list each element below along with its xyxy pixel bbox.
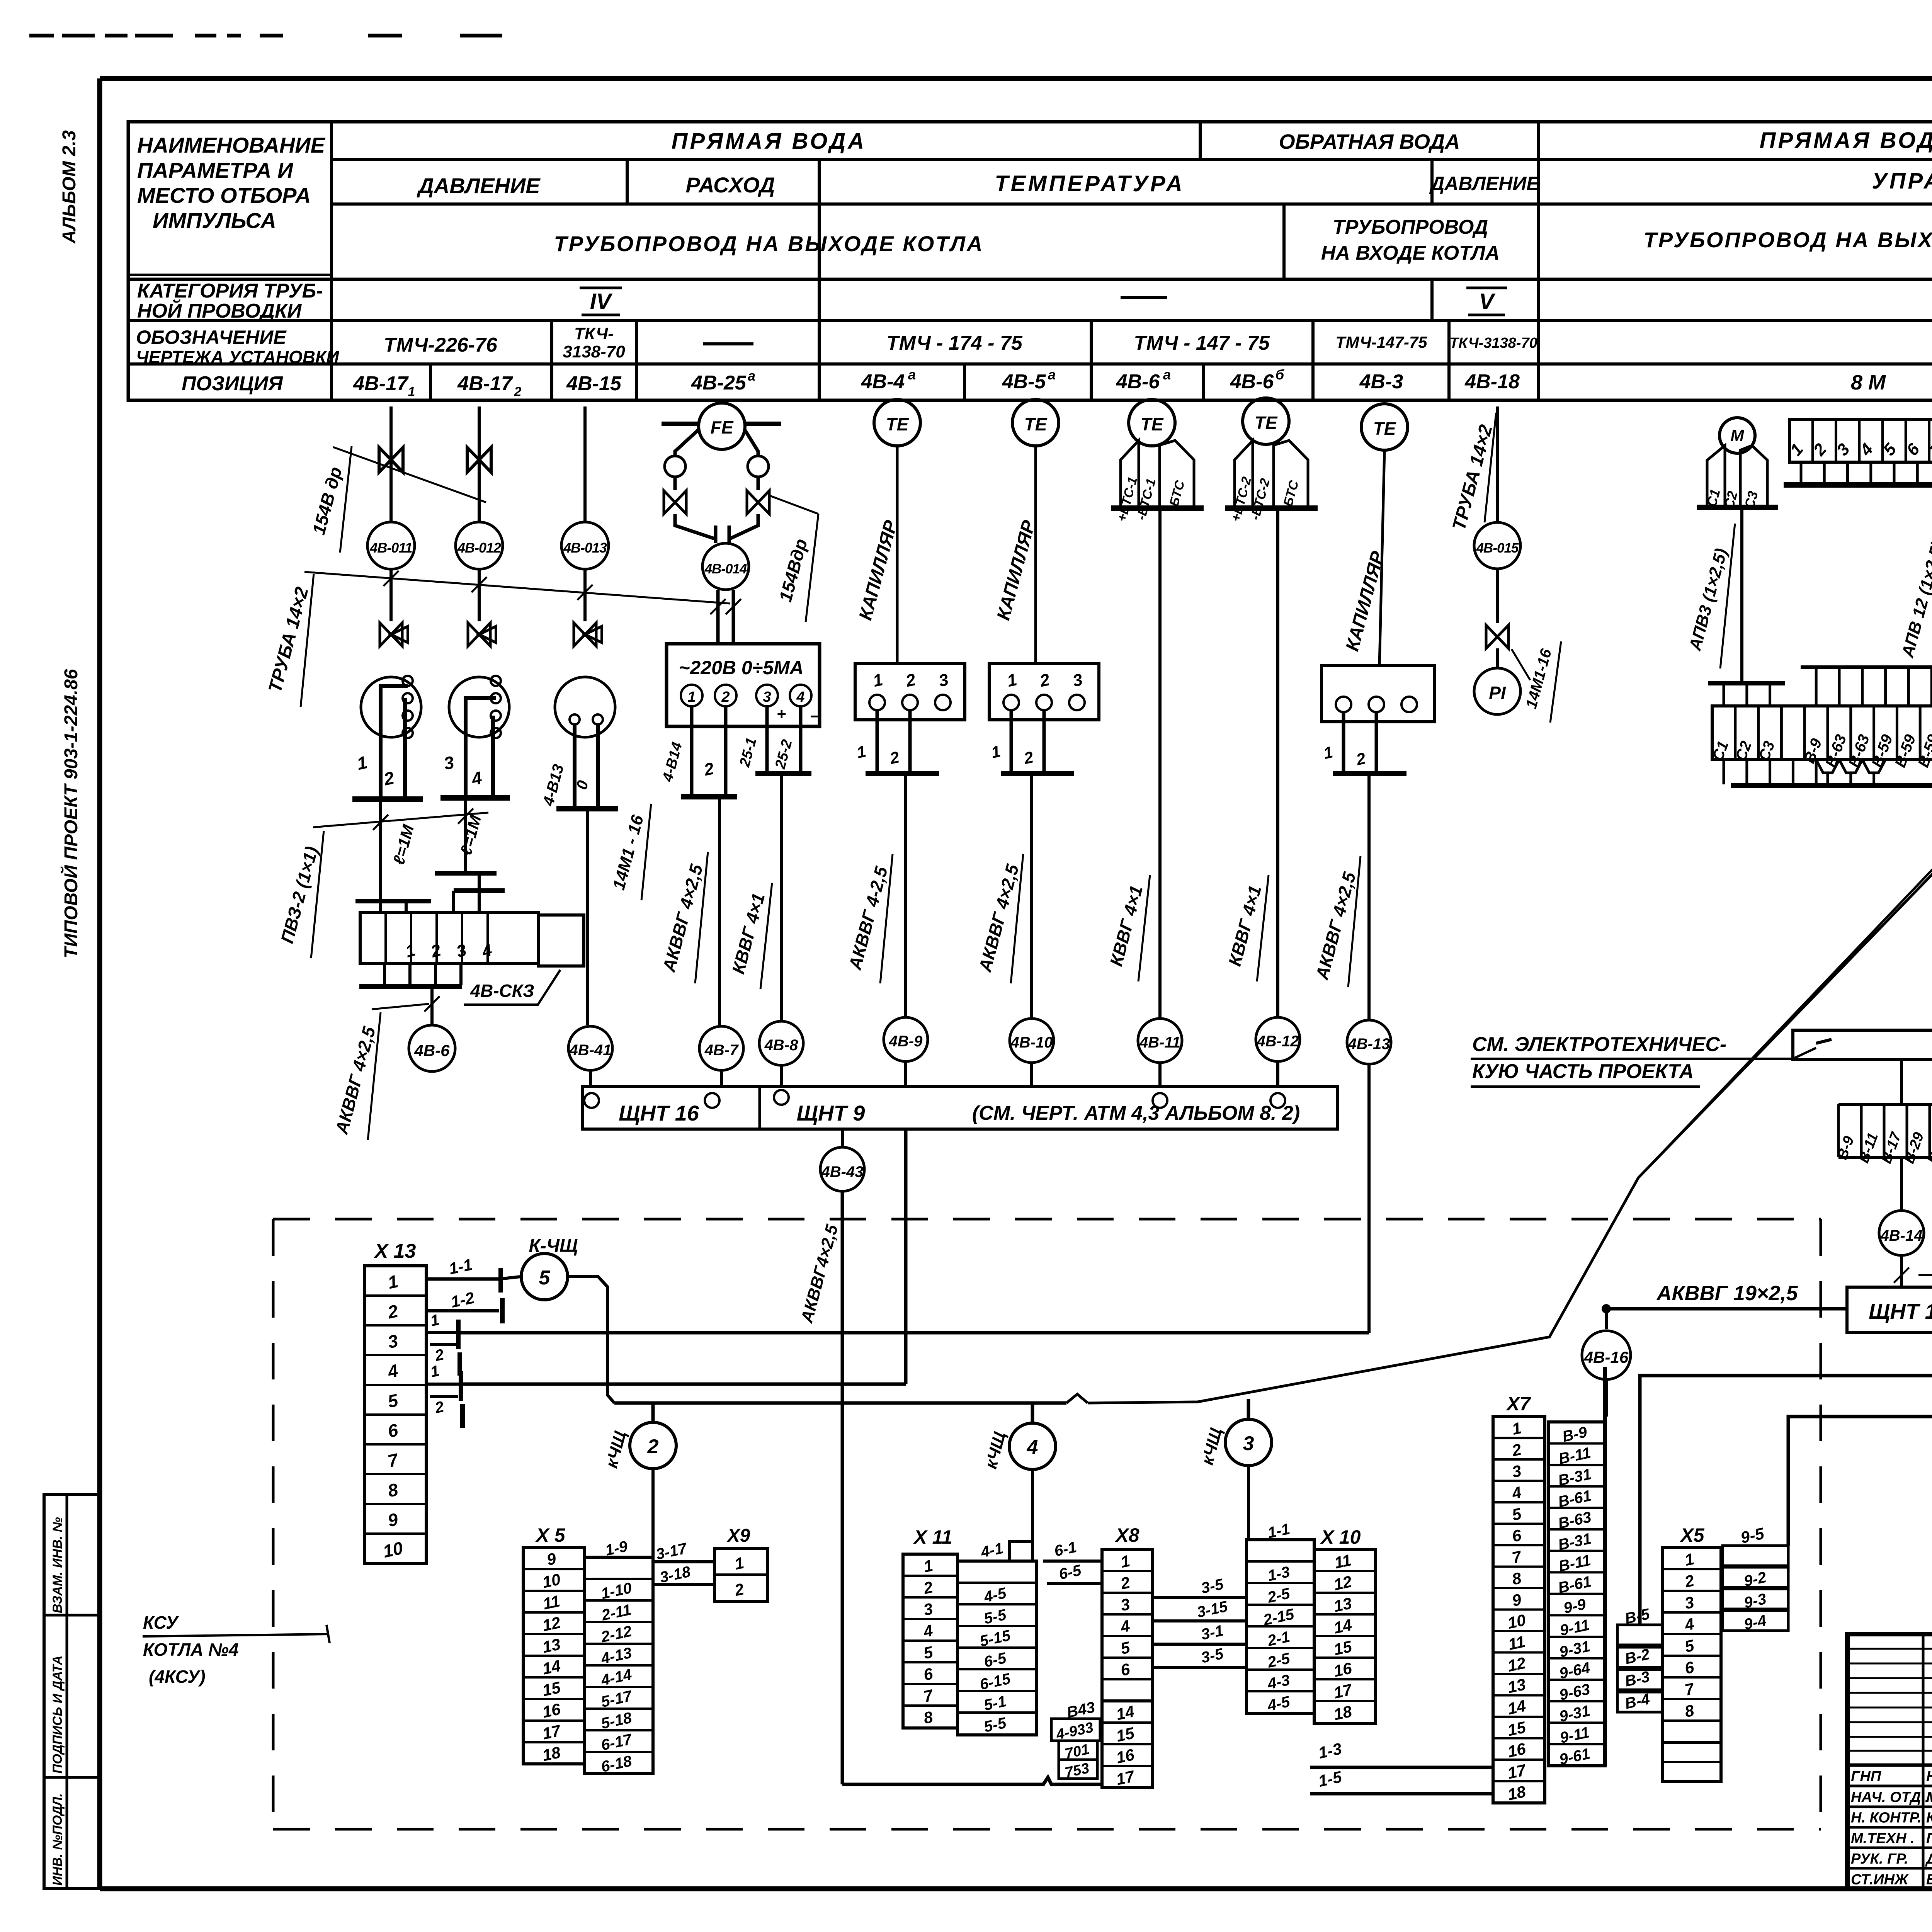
svg-text:4В-8: 4В-8 bbox=[764, 1037, 798, 1054]
strip В-9..В-63 bbox=[1838, 1103, 1932, 1106]
svg-text:К-ЧЩ: К-ЧЩ bbox=[529, 1236, 578, 1256]
svg-text:ТЕ: ТЕ bbox=[1024, 414, 1048, 434]
svg-text:а: а bbox=[908, 367, 916, 383]
svg-text:2: 2 bbox=[514, 384, 522, 399]
line down to 4В-015 bbox=[1496, 406, 1499, 522]
fork below В-63 bbox=[1816, 760, 1839, 773]
svg-text:ПОЗИЦИЯ: ПОЗИЦИЯ bbox=[182, 372, 283, 395]
svg-text:ОБОЗНАЧЕНИЕ: ОБОЗНАЧЕНИЕ bbox=[136, 327, 287, 348]
wires from gauge 1 with numerals 1 2 bbox=[381, 686, 408, 798]
svg-text:ПОДПИСЬ И ДАТА: ПОДПИСЬ И ДАТА bbox=[50, 1655, 65, 1774]
svg-text:4В-5: 4В-5 bbox=[1002, 371, 1046, 393]
svg-text:ПАРАМЕТРА И: ПАРАМЕТРА И bbox=[137, 158, 294, 182]
wire down to 4В-11 bbox=[1158, 508, 1162, 1019]
small bus С1С2С3 8М bbox=[1708, 681, 1785, 685]
svg-text:4В-011: 4В-011 bbox=[369, 540, 412, 556]
wires terminals 3 4 down bbox=[765, 706, 769, 772]
svg-text:ЧЕРТЕЖА УСТАНОВКИ: ЧЕРТЕЖА УСТАНОВКИ bbox=[136, 347, 339, 367]
svg-text:4В-4: 4В-4 bbox=[861, 371, 905, 393]
svg-text:2: 2 bbox=[647, 1435, 659, 1458]
svg-text:4В-013: 4В-013 bbox=[563, 540, 607, 556]
svg-text:4В-12: 4В-12 bbox=[1257, 1033, 1299, 1050]
svg-text:14: 14 bbox=[541, 1656, 562, 1678]
flow element FE circle bbox=[699, 403, 745, 449]
motor circle М 8М bbox=[1719, 418, 1755, 453]
wire down to 4В-10 bbox=[1030, 774, 1033, 1019]
lower strip 8М bbox=[1712, 706, 1932, 760]
svg-text:ЩНТ 9: ЩНТ 9 bbox=[797, 1101, 865, 1125]
svg-text:4В-6: 4В-6 bbox=[414, 1041, 450, 1060]
svg-text:4В-3: 4В-3 bbox=[1359, 371, 1403, 393]
wire from note to panel bar bbox=[1723, 1058, 1793, 1060]
line below 4В-012 bbox=[478, 569, 481, 621]
svg-text:3: 3 bbox=[763, 689, 771, 705]
svg-text:4В-СКЗ: 4В-СКЗ bbox=[470, 981, 534, 1001]
category dash bbox=[1121, 296, 1167, 299]
gauge contacts 4В-013 bbox=[570, 714, 580, 724]
wires 843 to X8 bbox=[1100, 1728, 1102, 1731]
svg-text:МЕСТО ОТБОРА: МЕСТО ОТБОРА bbox=[137, 183, 311, 207]
svg-text:НА ВХОДЕ КОТЛА: НА ВХОДЕ КОТЛА bbox=[1321, 242, 1500, 264]
svg-text:ТМЧ - 174 - 75: ТМЧ - 174 - 75 bbox=[886, 332, 1023, 354]
bus under terminals 1 2 bbox=[681, 794, 737, 799]
FE left valve bbox=[664, 491, 686, 514]
wires from gauge 2 with numerals 3 4 bbox=[466, 698, 496, 797]
cable circle 4В-014 bbox=[702, 543, 749, 590]
wire down to 4В-9 bbox=[904, 774, 907, 1018]
diagonal to СМ ЭЛЕКТРО area bbox=[1638, 867, 1932, 1178]
wire to 4В-6 circle bbox=[430, 986, 434, 1025]
svg-text:КАТЕГОРИЯ ТРУБ-: КАТЕГОРИЯ ТРУБ- bbox=[137, 280, 323, 302]
svg-text:13: 13 bbox=[1332, 1594, 1353, 1616]
wires 1 2 below box bbox=[876, 710, 879, 772]
svg-text:3138-70: 3138-70 bbox=[563, 342, 625, 361]
svg-text:4В-012: 4В-012 bbox=[457, 540, 501, 556]
X10 right column bbox=[1314, 1549, 1376, 1723]
cable circle 4В-9 bbox=[884, 1017, 928, 1061]
svg-text:X 13: X 13 bbox=[374, 1240, 416, 1262]
left margin stamp boxes bbox=[44, 1495, 99, 1889]
svg-text:КУЮ ЧАСТЬ ПРОЕКТА: КУЮ ЧАСТЬ ПРОЕКТА bbox=[1472, 1060, 1694, 1083]
label АКВВГ 7х2,5 8М bbox=[1900, 1255, 1903, 1287]
temperature element TE circle bbox=[1012, 400, 1059, 446]
wire 4В-9 through board bbox=[904, 1061, 907, 1087]
svg-text:КУШЕЛЬ: КУШЕЛЬ bbox=[1926, 1810, 1932, 1826]
wire bar to strip В-9..В-63 bbox=[1900, 1060, 1903, 1104]
TE column 4В-11 bbox=[1129, 400, 1175, 446]
wire АПВ3 8М bbox=[1740, 507, 1743, 683]
svg-text:ЩНТ 16: ЩНТ 16 bbox=[619, 1101, 699, 1125]
svg-text:ТКЧ-3138-70: ТКЧ-3138-70 bbox=[1449, 335, 1537, 351]
wire down to 4В-8 bbox=[780, 774, 783, 1020]
bus under БТС banner bbox=[1111, 505, 1204, 511]
bottom bus 8М bbox=[1731, 783, 1932, 788]
X11 right tag column bbox=[957, 1561, 1036, 1735]
wire down to 4В-12 bbox=[1276, 508, 1279, 1018]
svg-text:X9: X9 bbox=[726, 1526, 750, 1546]
registration dashes top-left bbox=[29, 34, 54, 37]
svg-text:ВЗАМ. ИНВ. №: ВЗАМ. ИНВ. № bbox=[50, 1517, 65, 1613]
temperature element TE circle bbox=[874, 400, 920, 446]
wire circle3 down bbox=[1247, 1466, 1250, 1540]
svg-text:4В-14: 4В-14 bbox=[1880, 1227, 1923, 1244]
stubs below lower strip 8М bbox=[1723, 760, 1725, 784]
svg-text:4В-6: 4В-6 bbox=[1116, 371, 1160, 393]
stubs into lower strip 8М bbox=[1815, 667, 1818, 706]
svg-text:4: 4 bbox=[796, 689, 804, 705]
svg-text:НАЧ. ОТД .: НАЧ. ОТД . bbox=[1851, 1789, 1929, 1805]
strip 1-12 8М bbox=[1789, 419, 1932, 462]
svg-text:ТРУБОПРОВОД: ТРУБОПРОВОД bbox=[1333, 216, 1488, 238]
wire X13 rows3-4 to 4В-13 column bbox=[458, 1331, 1369, 1335]
svg-text:12: 12 bbox=[1332, 1572, 1353, 1594]
stubs under strip 8М bbox=[1800, 462, 1803, 484]
svg-text:М.ТЕХН .: М.ТЕХН . bbox=[1851, 1830, 1915, 1847]
table column lines bbox=[330, 122, 333, 400]
gauge circle 4В-011 bbox=[361, 677, 421, 737]
svg-text:4В-18: 4В-18 bbox=[1464, 371, 1520, 393]
impulse line column 4В-011 bbox=[389, 406, 393, 522]
title block left signature grid bbox=[1847, 1764, 1932, 1767]
svg-text:4В-41: 4В-41 bbox=[569, 1042, 612, 1059]
wire 4В-43 down bbox=[841, 1191, 844, 1784]
FE right valve bbox=[747, 491, 769, 514]
svg-text:13: 13 bbox=[1506, 1675, 1527, 1697]
leader ПВЗ-2 to wires bbox=[313, 813, 488, 827]
svg-text:ТМЧ-147-75: ТМЧ-147-75 bbox=[1335, 333, 1427, 351]
svg-text:ТМЧ-226-76: ТМЧ-226-76 bbox=[384, 334, 498, 356]
svg-text:а: а bbox=[1163, 367, 1171, 383]
panel bar 8М bbox=[1793, 1030, 1932, 1060]
wire 4В-12 into board bbox=[1276, 1061, 1279, 1087]
wire circle4 down bbox=[1031, 1469, 1034, 1561]
instrument circle 4В-013 bbox=[561, 522, 609, 569]
three-way valve 4В-013 bbox=[574, 623, 596, 646]
label 14М1-16 leader bbox=[1512, 649, 1530, 680]
X7 right tag column bbox=[1548, 1422, 1605, 1766]
board ЩНТ 16 lower bbox=[1847, 1287, 1932, 1333]
FE right impulse branch bbox=[744, 429, 758, 456]
big U wire bottom bbox=[842, 1777, 1102, 1784]
svg-text:X 5: X 5 bbox=[535, 1524, 565, 1546]
svg-text:РУК. ГР.: РУК. ГР. bbox=[1851, 1851, 1908, 1867]
wire 9 tags riser bbox=[1788, 1417, 1932, 1546]
svg-text:X 11: X 11 bbox=[913, 1526, 952, 1548]
cable circle 4В-7 bbox=[699, 1026, 743, 1070]
svg-text:10: 10 bbox=[1506, 1611, 1527, 1632]
svg-text:ТРУБОПРОВОД НА ВЫХОДЕ КОТЛА: ТРУБОПРОВОД НА ВЫХОДЕ КОТЛА bbox=[554, 231, 984, 256]
X8 lower rows 14-17 bbox=[1102, 1701, 1153, 1787]
terminal dots on board bbox=[584, 1093, 599, 1108]
svg-text:АКВВГ 19×2,5: АКВВГ 19×2,5 bbox=[1656, 1282, 1798, 1305]
svg-text:ПАНТЕЛЕЕВА: ПАНТЕЛЕЕВА bbox=[1926, 1830, 1932, 1847]
svg-text:2: 2 bbox=[721, 689, 730, 705]
stubs above СКЗ strip bbox=[379, 900, 382, 912]
bus under БТС banner bbox=[1225, 505, 1318, 511]
leader across columns bbox=[304, 572, 730, 604]
wire 4В-8 into board bbox=[780, 1065, 783, 1087]
svg-text:4В-17: 4В-17 bbox=[353, 372, 409, 395]
FE side bars bbox=[662, 422, 698, 426]
break jog bbox=[1066, 1394, 1088, 1403]
instrument box ~220В 0÷5МА bbox=[667, 644, 820, 726]
wire АКВВГ19 into dashed area bbox=[1821, 1307, 1847, 1311]
svg-text:4: 4 bbox=[1027, 1436, 1038, 1459]
svg-text:4В-43: 4В-43 bbox=[821, 1163, 864, 1180]
svg-text:РАСХОД: РАСХОД bbox=[685, 173, 775, 197]
wire 4В-10 into board bbox=[1030, 1063, 1033, 1087]
instrument circle 4В-011 bbox=[367, 522, 415, 569]
svg-text:ТЕ: ТЕ bbox=[1141, 414, 1164, 434]
wire circle2 down bbox=[651, 1469, 655, 1556]
gauge contacts 4В-012 bbox=[491, 676, 501, 686]
wire АКВВГ19 horizontal bbox=[1606, 1307, 1847, 1311]
three-way valve 4В-011 bbox=[380, 623, 402, 646]
svg-text:4В-25: 4В-25 bbox=[691, 372, 747, 394]
wire down to 4В-13 bbox=[1367, 774, 1371, 1020]
svg-text:~220В 0÷5МА: ~220В 0÷5МА bbox=[679, 657, 803, 679]
dashed enclosure КСУ bbox=[272, 1219, 275, 1829]
svg-text:4В-13: 4В-13 bbox=[1348, 1036, 1390, 1053]
bus under box bbox=[1333, 771, 1406, 776]
wire down to 4В-7 bbox=[718, 797, 721, 1025]
gauge circle 4В-013 bbox=[555, 677, 615, 737]
svg-text:МЕЙМАН: МЕЙМАН bbox=[1926, 1788, 1932, 1805]
wire 4В-43 from board bbox=[841, 1129, 844, 1148]
svg-text:ДРУЖИНИНА: ДРУЖИНИНА bbox=[1925, 1851, 1932, 1867]
cable circle 4В-14 bbox=[1879, 1211, 1924, 1255]
svg-text:ГНП: ГНП bbox=[1851, 1769, 1881, 1785]
svg-text:КОТЛА №4: КОТЛА №4 bbox=[143, 1639, 238, 1660]
svg-text:14: 14 bbox=[1506, 1696, 1527, 1718]
svg-text:3: 3 bbox=[1243, 1432, 1254, 1455]
bus under TE box bbox=[866, 771, 939, 776]
terminal strip 4В-СКЗ bbox=[360, 912, 538, 963]
svg-text:8 М: 8 М bbox=[1851, 371, 1886, 394]
svg-text:FE: FE bbox=[711, 417, 734, 437]
svg-text:4В-15: 4В-15 bbox=[566, 372, 622, 395]
svg-text:РI: РI bbox=[1489, 683, 1506, 703]
svg-text:НИДБАЛЬСКИН: НИДБАЛЬСКИН bbox=[1926, 1769, 1932, 1785]
instrument circle РI bbox=[1496, 648, 1499, 668]
cable circle 4В-43 bbox=[820, 1147, 864, 1191]
cable circle 4В-16 bbox=[1605, 1309, 1608, 1329]
gauge circle 4В-012 bbox=[449, 677, 509, 737]
X5 right tag column bbox=[585, 1557, 653, 1774]
svg-text:ТРУБОПРОВОД НА ВЫХОДЕ КОТ: ТРУБОПРОВОД НА ВЫХОДЕ КОТЛА bbox=[1644, 228, 1932, 252]
svg-text:X5: X5 bbox=[1679, 1524, 1704, 1546]
X10 left tag column bbox=[1247, 1540, 1314, 1714]
terminal box 1 2 3 bbox=[855, 663, 965, 720]
svg-text:ТЕМПЕРАТУРА: ТЕМПЕРАТУРА bbox=[995, 171, 1185, 196]
svg-text:4В-014: 4В-014 bbox=[704, 561, 747, 577]
branches join to 4В-014 bbox=[675, 514, 716, 539]
svg-text:ДАВЛЕНИЕ: ДАВЛЕНИЕ bbox=[1429, 173, 1540, 194]
svg-text:4В-015: 4В-015 bbox=[1476, 541, 1519, 556]
three-way valve 4В-012 bbox=[468, 623, 490, 646]
КСУ leader line bbox=[143, 1634, 328, 1636]
svg-text:13: 13 bbox=[541, 1635, 562, 1656]
page frame bbox=[100, 76, 1932, 81]
wires from gauge 3 with labels 4-В13 0 bbox=[573, 724, 577, 808]
cable circle 4В-11 bbox=[1138, 1019, 1182, 1063]
cable circle 4В-12 bbox=[1256, 1017, 1300, 1061]
wire from X11 area to bus bottom bbox=[1009, 1542, 1032, 1561]
cable circle 4В-41 bbox=[568, 1026, 612, 1070]
wire from circle 5 to bus bbox=[568, 1277, 614, 1403]
svg-text:ИНВ. №ПОДЛ.: ИНВ. №ПОДЛ. bbox=[50, 1793, 65, 1886]
svg-text:14: 14 bbox=[1332, 1616, 1353, 1637]
С1 С2 С3 banner 8М bbox=[1707, 446, 1725, 506]
board box ЩНТ16 ЩНТ9 bbox=[583, 1087, 1337, 1129]
svg-text:X 10: X 10 bbox=[1320, 1526, 1361, 1548]
БТС banner -2 bbox=[1235, 440, 1253, 506]
cable circle 4В-015 bbox=[1474, 522, 1520, 569]
instrument circle 4В-012 bbox=[456, 522, 503, 569]
svg-text:ТИПОВОЙ ПРОЕКТ 903-1-224.86: ТИПОВОЙ ПРОЕКТ 903-1-224.86 bbox=[60, 669, 82, 958]
line below 4В-011 bbox=[389, 569, 393, 621]
TE column 4В-12 bbox=[1243, 398, 1289, 444]
wire 4В-7 into board bbox=[720, 1070, 723, 1087]
TE column 4В-13 bbox=[1361, 404, 1408, 450]
capillary line bbox=[896, 446, 899, 663]
cable circle 4В-8 bbox=[759, 1021, 803, 1065]
svg-text:4В-17: 4В-17 bbox=[457, 372, 513, 395]
svg-text:1: 1 bbox=[687, 689, 696, 705]
wire column3 down to 4В-41 bbox=[586, 809, 589, 1025]
cable circle 4В-6 bbox=[409, 1025, 455, 1071]
crossed valve bbox=[1486, 625, 1509, 648]
bus bar under column 2 bbox=[440, 795, 510, 801]
svg-text:IV: IV bbox=[590, 289, 613, 314]
svg-text:(4КСУ): (4КСУ) bbox=[149, 1667, 206, 1687]
cable circle 4В-13 bbox=[1347, 1020, 1391, 1064]
line below 4В-015 bbox=[1496, 569, 1499, 623]
svg-text:ПРЯМАЯ ВОДА: ПРЯМАЯ ВОДА bbox=[672, 129, 866, 154]
svg-text:М: М bbox=[1731, 426, 1745, 444]
gauge contacts 4В-011 bbox=[403, 676, 413, 686]
wire 4В-11 into board bbox=[1158, 1063, 1162, 1087]
svg-text:НАИМЕНОВАНИЕ: НАИМЕНОВАНИЕ bbox=[137, 133, 326, 157]
svg-text:АЛЬБОМ 2.3: АЛЬБОМ 2.3 bbox=[59, 130, 80, 244]
svg-text:ТМЧ - 147 - 75: ТМЧ - 147 - 75 bbox=[1134, 332, 1270, 354]
svg-text:ИМПУЛЬСА: ИМПУЛЬСА bbox=[153, 208, 276, 233]
wire 4В-9 down from board bbox=[904, 1129, 908, 1384]
line below 4В-013 bbox=[583, 569, 587, 621]
capillary line bbox=[1034, 446, 1037, 663]
shutoff valve above 4В-012 bbox=[467, 447, 491, 472]
main bus wire to junction bbox=[614, 1401, 1066, 1405]
terminal box 1 2 3 bbox=[989, 663, 1099, 720]
svg-text:ДАВЛЕНИЕ: ДАВЛЕНИЕ bbox=[417, 173, 541, 198]
wire 4В-41 into board bbox=[589, 1070, 592, 1087]
connector circle 2 bbox=[651, 1403, 655, 1422]
wire X13 rows5-6 to 4В-9 column bbox=[461, 1383, 906, 1386]
leader from 154В др to valves bbox=[333, 447, 486, 502]
bus under terminals 3 4 bbox=[755, 771, 811, 776]
svg-text:4В-16: 4В-16 bbox=[1584, 1348, 1629, 1366]
svg-text:ТКЧ-: ТКЧ- bbox=[574, 324, 614, 343]
svg-text:а: а bbox=[748, 368, 755, 384]
thick riser along X7 tags bbox=[1603, 1367, 1607, 1766]
svg-text:ОБРАТНАЯ ВОДА: ОБРАТНАЯ ВОДА bbox=[1279, 130, 1460, 153]
svg-text:12: 12 bbox=[1506, 1653, 1527, 1675]
svg-text:ПРЯМАЯ ВОДА: ПРЯМАЯ ВОДА bbox=[1760, 128, 1932, 153]
shutoff valve above 4В-011 bbox=[379, 447, 403, 472]
wires below box bbox=[1342, 712, 1345, 772]
svg-text:а: а bbox=[1048, 367, 1056, 383]
connector circle 3 bbox=[1247, 1399, 1250, 1418]
title block outer bbox=[1847, 1634, 1932, 1889]
svg-text:б: б bbox=[1276, 367, 1285, 383]
svg-text:КСУ: КСУ bbox=[143, 1612, 179, 1633]
svg-text:10: 10 bbox=[541, 1570, 562, 1592]
svg-text:НОЙ ПРОВОДКИ: НОЙ ПРОВОДКИ bbox=[137, 299, 302, 322]
impulse line column 4В-013 bbox=[583, 406, 587, 522]
FE left impulse branch bbox=[675, 429, 699, 456]
bus bar under column 1 bbox=[352, 796, 423, 802]
svg-text:X7: X7 bbox=[1505, 1393, 1531, 1415]
БТС banner -1 bbox=[1121, 440, 1139, 506]
svg-text:УПРАВЛЕНИЕ ЗАДВИЖКАМИ: УПРАВЛЕНИЕ ЗАДВИЖКАМИ bbox=[1872, 168, 1932, 194]
svg-text:−: − bbox=[810, 707, 820, 725]
terminal box 4В-13 bbox=[1321, 665, 1434, 722]
svg-text:Н. КОНТР.: Н. КОНТР. bbox=[1851, 1810, 1922, 1826]
svg-text:V: V bbox=[1479, 289, 1496, 314]
svg-text:4В-11: 4В-11 bbox=[1139, 1034, 1180, 1051]
svg-text:ЩНТ 16: ЩНТ 16 bbox=[1869, 1299, 1932, 1323]
svg-text:ТЕ: ТЕ bbox=[1373, 418, 1396, 439]
wire В tags riser bbox=[1640, 1333, 1932, 1625]
stubs below СКЗ strip and bus bbox=[383, 963, 386, 985]
twin lines below 4В-014 bbox=[716, 590, 720, 644]
bus under С banner 8М bbox=[1697, 505, 1778, 510]
cable circle 4В-10 bbox=[1010, 1019, 1054, 1063]
svg-text:X8: X8 bbox=[1114, 1524, 1139, 1546]
svg-text:4В-7: 4В-7 bbox=[704, 1042, 739, 1059]
svg-text:СМ. ЭЛЕКТРОТЕХНИЧЕС-: СМ. ЭЛЕКТРОТЕХНИЧЕС- bbox=[1472, 1033, 1726, 1056]
impulse line column 4В-012 bbox=[478, 406, 481, 522]
svg-text:5: 5 bbox=[539, 1267, 551, 1289]
svg-text:4В-6: 4В-6 bbox=[1230, 371, 1274, 393]
top bus of lower strip 8М bbox=[1801, 665, 1932, 669]
svg-text:12: 12 bbox=[541, 1613, 562, 1635]
wire 4В-13 down bbox=[1367, 1064, 1371, 1333]
bus bar under column 3 bbox=[556, 806, 618, 811]
bus continues and rises bbox=[1088, 871, 1932, 1403]
svg-text:СТ.ИНЖ: СТ.ИНЖ bbox=[1851, 1872, 1909, 1888]
svg-text:ТЕ: ТЕ bbox=[1255, 413, 1278, 433]
wires from buses down to СКЗ strip bbox=[379, 799, 382, 900]
svg-text:1: 1 bbox=[408, 384, 415, 399]
connector circle 4 bbox=[1031, 1403, 1034, 1422]
label 4В-СКЗ with leader bbox=[464, 970, 560, 1005]
wire to 4В-14 bbox=[1900, 1157, 1903, 1210]
table outer box bbox=[128, 122, 1932, 400]
svg-text:+: + bbox=[777, 705, 786, 723]
table row lines bbox=[332, 158, 1932, 161]
wires terminals 1 2 down bbox=[690, 706, 694, 795]
wire tags 1-1 1-2 bbox=[426, 1277, 499, 1281]
svg-text:ЕФИМОВА: ЕФИМОВА bbox=[1926, 1872, 1932, 1888]
svg-text:ТЕ: ТЕ bbox=[886, 414, 909, 434]
wire to К-ЧЩ 5 bbox=[499, 1277, 520, 1279]
svg-text:(СМ. ЧЕРТ. АТМ 4,3 АЛЬБОМ: (СМ. ЧЕРТ. АТМ 4,3 АЛЬБОМ 8. 2) bbox=[972, 1102, 1300, 1124]
svg-text:4В-10: 4В-10 bbox=[1010, 1034, 1053, 1051]
svg-text:4В-9: 4В-9 bbox=[889, 1033, 923, 1050]
svg-text:14: 14 bbox=[1114, 1702, 1136, 1724]
